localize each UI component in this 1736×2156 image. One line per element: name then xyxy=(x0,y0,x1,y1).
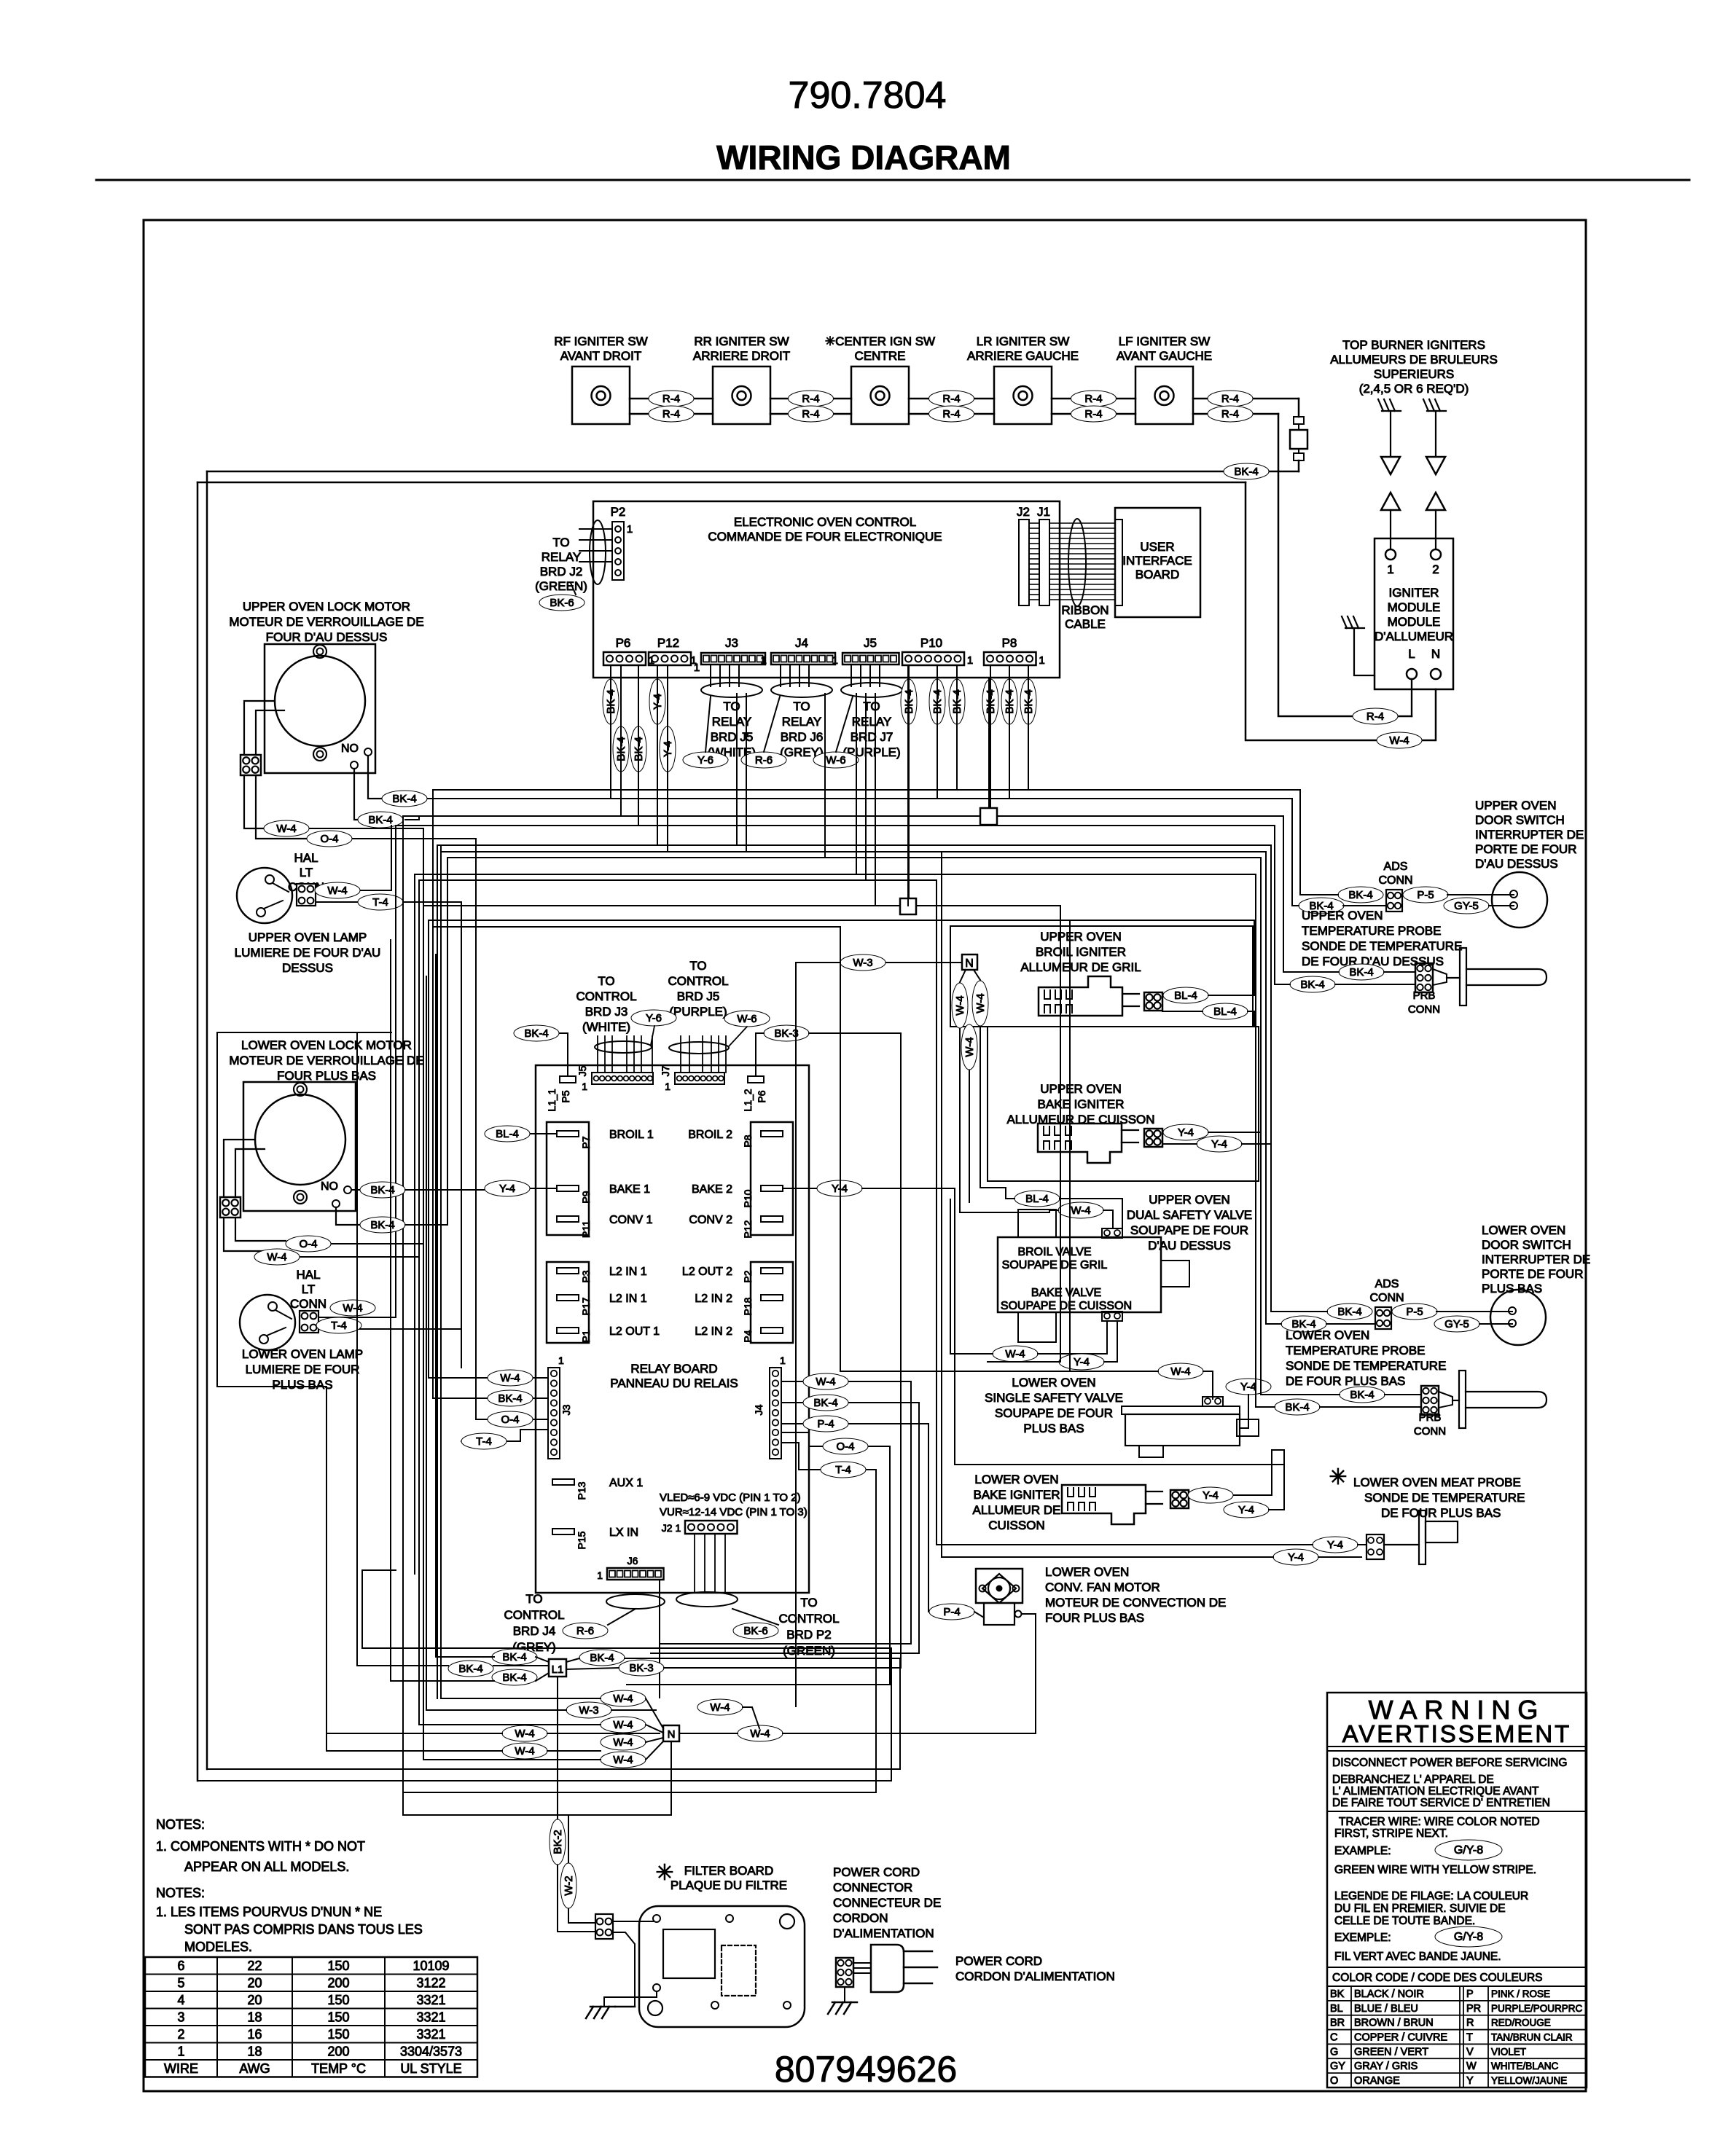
svg-text:TO: TO xyxy=(689,959,706,973)
wire pair with R-4 labels after SW3 xyxy=(909,398,994,400)
label P-5 lower xyxy=(1392,1304,1437,1320)
svg-text:W-3: W-3 xyxy=(579,1704,598,1717)
igniter switch SW3 (✳CENTER IGN SW) xyxy=(851,366,909,424)
ground filter board xyxy=(604,1991,657,2007)
svg-text:O-4: O-4 xyxy=(320,833,338,845)
svg-text:BL-4: BL-4 xyxy=(1025,1193,1049,1205)
igniter switch SW2 (RR IGNITER SW) xyxy=(713,366,770,424)
box around broil igniter xyxy=(950,926,1253,1027)
svg-text:BR: BR xyxy=(1330,2018,1345,2029)
svg-text:Y: Y xyxy=(1466,2075,1474,2087)
wire spark to arrow left xyxy=(1390,411,1391,457)
connector lower lock motor xyxy=(220,1197,241,1218)
svg-text:BROIL 2: BROIL 2 xyxy=(688,1129,732,1141)
svg-text:W-4: W-4 xyxy=(1389,734,1409,747)
label W-3 left of N xyxy=(566,1702,611,1718)
svg-text:BK-6: BK-6 xyxy=(550,597,574,609)
svg-text:W-4: W-4 xyxy=(613,1754,633,1766)
svg-text:W-4: W-4 xyxy=(963,1037,976,1057)
svg-text:LOWER OVEN: LOWER OVEN xyxy=(1482,1223,1565,1237)
svg-text:(GREEN): (GREEN) xyxy=(783,1644,835,1658)
svg-text:J3: J3 xyxy=(560,1404,572,1415)
label BK-4 below P6 pin1 xyxy=(603,679,619,724)
svg-text:J2 1: J2 1 xyxy=(662,1522,681,1534)
junction node sq2 xyxy=(900,898,916,914)
bus BK-4 top xyxy=(207,471,1299,473)
svg-text:4: 4 xyxy=(177,1993,184,2007)
svg-text:D'AU DESSUS: D'AU DESSUS xyxy=(1475,857,1558,871)
svg-text:EXAMPLE:: EXAMPLE: xyxy=(1334,1845,1391,1857)
connector J3 relay vertical xyxy=(548,1368,560,1459)
svg-text:RED/ROUGE: RED/ROUGE xyxy=(1491,2018,1551,2028)
label W-4 lower lamp xyxy=(318,1317,396,1318)
label Y-4 bake igniter 2 xyxy=(1197,1136,1242,1152)
igniter module U2 xyxy=(1375,538,1453,689)
svg-text:BL-4: BL-4 xyxy=(1213,1006,1237,1018)
svg-text:J4: J4 xyxy=(753,1404,765,1415)
label BK-4 below P8 pin3 xyxy=(1020,679,1036,724)
wire pair with R-4 labels after SW2 xyxy=(770,398,851,400)
wires probe upper xyxy=(1283,816,1339,972)
svg-text:PR: PR xyxy=(1466,2003,1481,2015)
wires probe lower xyxy=(1261,858,1340,1395)
example tracer label G/Y-8 xyxy=(1435,1840,1502,1860)
svg-text:J6: J6 xyxy=(627,1555,638,1567)
svg-text:R-4: R-4 xyxy=(662,408,680,420)
label BK-4 upper lock NO xyxy=(368,756,382,799)
connector P12 xyxy=(649,652,691,665)
label BK-4 below P6 pin2 xyxy=(613,726,629,772)
svg-text:LT: LT xyxy=(302,1282,316,1296)
svg-text:R-4: R-4 xyxy=(942,408,960,420)
relay board xyxy=(536,1065,809,1593)
svg-text:1: 1 xyxy=(665,1081,670,1092)
bus vertical mid bundle xyxy=(402,816,404,1815)
svg-text:BK-4: BK-4 xyxy=(1337,1306,1361,1318)
svg-text:DESSUS: DESSUS xyxy=(282,961,333,975)
label W-4 left of N 2 xyxy=(601,1717,646,1733)
filter board FB1 xyxy=(639,1906,805,2027)
svg-text:J3: J3 xyxy=(725,636,738,650)
svg-text:PORTE DE FOUR: PORTE DE FOUR xyxy=(1475,842,1576,856)
svg-text:CABLE: CABLE xyxy=(1065,617,1106,631)
ribbon cable loop xyxy=(1068,519,1086,606)
svg-text:1: 1 xyxy=(691,654,697,667)
svg-text:GREEN / VERT: GREEN / VERT xyxy=(1354,2046,1428,2058)
label T-4 J4 xyxy=(781,1443,876,1470)
bus bottom horizontal 3 xyxy=(403,1792,876,1793)
svg-text:W: W xyxy=(1466,2061,1477,2072)
relay connector group P3 P17 P1 xyxy=(547,1262,589,1343)
svg-text:P2: P2 xyxy=(742,1270,754,1282)
connector P10 xyxy=(902,652,964,665)
svg-text:P5: P5 xyxy=(560,1090,571,1102)
svg-text:UPPER OVEN: UPPER OVEN xyxy=(1040,1082,1121,1096)
svg-text:22: 22 xyxy=(247,1959,262,1973)
svg-text:ARRIERE GAUCHE: ARRIERE GAUCHE xyxy=(967,349,1079,363)
svg-text:BK-4: BK-4 xyxy=(524,1027,548,1040)
PRB connector lower xyxy=(1421,1386,1439,1415)
svg-text:D'ALIMENTATION: D'ALIMENTATION xyxy=(833,1926,934,1940)
svg-text:TEMP °C: TEMP °C xyxy=(311,2061,366,2076)
svg-text:DISCONNECT POWER BEFORE SERVIC: DISCONNECT POWER BEFORE SERVICING xyxy=(1332,1757,1567,1769)
label P-4 J4 xyxy=(781,1423,928,1424)
connector P15 LX IN xyxy=(552,1529,574,1534)
wire pair with R-4 labels after SW1 xyxy=(630,398,713,400)
label BK-4 J4 xyxy=(781,1402,919,1403)
label BK-4 relay L1_1 xyxy=(514,1025,559,1041)
svg-text:(WHITE): (WHITE) xyxy=(582,1020,630,1034)
svg-text:PORTE DE FOUR: PORTE DE FOUR xyxy=(1482,1267,1583,1281)
svg-text:SUPERIEURS: SUPERIEURS xyxy=(1374,367,1455,381)
label BK-3 right of L1 xyxy=(619,1660,664,1676)
svg-text:GY-5: GY-5 xyxy=(1454,900,1479,912)
svg-text:P8: P8 xyxy=(1002,636,1017,650)
svg-text:N: N xyxy=(1431,647,1440,661)
wire module L down to R-4 xyxy=(1411,679,1412,716)
svg-text:L2 OUT 2: L2 OUT 2 xyxy=(682,1266,732,1278)
svg-text:BK-4: BK-4 xyxy=(458,1663,482,1675)
label W-4 J4 xyxy=(781,1381,911,1382)
svg-text:GY-5: GY-5 xyxy=(1444,1318,1469,1330)
label BK-3 relay xyxy=(764,1025,809,1041)
svg-text:T-4: T-4 xyxy=(476,1435,492,1448)
svg-text:BK-6: BK-6 xyxy=(743,1625,767,1637)
label BK-4 probe upper xyxy=(1339,964,1384,980)
svg-text:BAKE IGNITER: BAKE IGNITER xyxy=(1037,1097,1124,1111)
lower door switch S2 xyxy=(1490,1290,1546,1345)
label BL-4 broil igniter xyxy=(1163,987,1208,1003)
svg-text:3304/3573: 3304/3573 xyxy=(400,2044,462,2058)
relay connector group P2 P18 P4 xyxy=(751,1262,793,1343)
label W-4 lower lock xyxy=(254,1249,300,1265)
label BK-4 right of L1 xyxy=(579,1650,625,1666)
svg-text:1. LES ITEMS POURVUS D'NUN *: 1. LES ITEMS POURVUS D'NUN * NE xyxy=(156,1905,382,1919)
svg-text:UPPER OVEN LOCK MOTOR: UPPER OVEN LOCK MOTOR xyxy=(243,600,410,614)
svg-text:GREEN WIRE WITH YELLOW STRIPE.: GREEN WIRE WITH YELLOW STRIPE. xyxy=(1334,1864,1536,1876)
svg-text:P7: P7 xyxy=(580,1136,592,1148)
power cord connector xyxy=(836,1958,853,1987)
svg-text:L1_1: L1_1 xyxy=(546,1089,558,1111)
spark gap igniter module chassis xyxy=(1342,616,1347,628)
N node bottom xyxy=(663,1725,679,1741)
label W-4 igniter module N xyxy=(1377,732,1422,748)
svg-text:CENTRE: CENTRE xyxy=(855,349,906,363)
svg-text:P11: P11 xyxy=(580,1220,592,1238)
svg-text:W-4: W-4 xyxy=(816,1376,835,1388)
svg-text:PURPLE/POURPRC: PURPLE/POURPRC xyxy=(1491,2003,1583,2014)
connector lower bake igniter xyxy=(1170,1490,1189,1508)
label O-4 J3 xyxy=(476,1419,548,1420)
svg-text:P12: P12 xyxy=(657,636,679,650)
svg-text:TO: TO xyxy=(793,699,810,713)
wire W-4 single valve feed vertical xyxy=(840,927,841,1371)
svg-text:SOUPAPE DE CUISSON: SOUPAPE DE CUISSON xyxy=(1001,1300,1132,1312)
svg-text:W-4: W-4 xyxy=(343,1302,362,1314)
label Y-4 lower igniter 2 xyxy=(1224,1502,1269,1518)
svg-text:ALLUMEURS DE BRULEURS: ALLUMEURS DE BRULEURS xyxy=(1330,353,1498,366)
fan motor return wire xyxy=(1015,1611,1022,1618)
label Y-6 xyxy=(683,752,728,768)
wire pair with R-4 labels after SW4 xyxy=(1052,398,1135,400)
svg-text:790.7804: 790.7804 xyxy=(789,74,947,117)
filter board connector xyxy=(595,1914,613,1939)
bus vertical left pair xyxy=(197,482,199,1781)
svg-text:HAL: HAL xyxy=(294,851,318,865)
label BL-4 broil1 xyxy=(506,1133,557,1134)
svg-text:LOWER OVEN: LOWER OVEN xyxy=(1045,1565,1129,1579)
wire igniter lower to module xyxy=(1278,414,1412,716)
svg-text:J4: J4 xyxy=(795,636,808,650)
svg-text:RELAY BOARD: RELAY BOARD xyxy=(630,1362,717,1376)
svg-text:CORDON D'ALIMENTATION: CORDON D'ALIMENTATION xyxy=(955,1969,1115,1983)
wires J3 bundle down xyxy=(710,665,711,686)
svg-text:AVERTISSEMENT: AVERTISSEMENT xyxy=(1342,1720,1572,1747)
svg-text:DE FOUR PLUS BAS: DE FOUR PLUS BAS xyxy=(1286,1374,1405,1388)
svg-text:CONN: CONN xyxy=(290,1297,327,1311)
svg-text:T: T xyxy=(1466,2032,1473,2044)
svg-text:P-4: P-4 xyxy=(943,1606,960,1618)
upper temp probe body xyxy=(1433,969,1447,985)
svg-text:BK-4: BK-4 xyxy=(1300,979,1324,991)
svg-text:W-4: W-4 xyxy=(613,1693,633,1705)
svg-text:MOTEUR DE VERROUILLAGE DE: MOTEUR DE VERROUILLAGE DE xyxy=(229,1054,423,1067)
svg-text:BK-4: BK-4 xyxy=(1348,889,1372,901)
svg-text:✳CENTER IGN SW: ✳CENTER IGN SW xyxy=(825,334,935,348)
svg-text:P2: P2 xyxy=(611,505,626,519)
label W-4 above N xyxy=(601,1690,646,1706)
connector P5 L1_1 xyxy=(560,1076,576,1083)
wire loop around lower lock motor xyxy=(217,1032,391,1387)
svg-text:150: 150 xyxy=(327,1959,349,1973)
connector J3 xyxy=(701,653,765,665)
svg-text:APPEAR ON ALL MODELS.: APPEAR ON ALL MODELS. xyxy=(184,1859,349,1874)
svg-text:PRB: PRB xyxy=(1413,989,1436,1002)
svg-text:CONV. FAN MOTOR: CONV. FAN MOTOR xyxy=(1045,1580,1160,1594)
connector broil igniter xyxy=(1144,992,1162,1011)
svg-text:BLACK / NOIR: BLACK / NOIR xyxy=(1354,1988,1424,2000)
spark gap symbol left burner xyxy=(1378,399,1383,411)
svg-text:BRD J5: BRD J5 xyxy=(677,989,720,1003)
svg-text:L2 IN 1: L2 IN 1 xyxy=(609,1266,647,1278)
connector P6 L1_2 xyxy=(748,1076,764,1083)
svg-text:LOWER OVEN: LOWER OVEN xyxy=(1286,1328,1369,1342)
ADS connector lower xyxy=(1375,1307,1391,1329)
svg-text:LOWER OVEN MEAT PROBE: LOWER OVEN MEAT PROBE xyxy=(1353,1475,1521,1489)
svg-text:3321: 3321 xyxy=(416,1993,445,2007)
svg-text:O: O xyxy=(1330,2075,1338,2087)
svg-text:T-4: T-4 xyxy=(835,1464,851,1476)
svg-text:W-4: W-4 xyxy=(710,1701,730,1714)
svg-text:FOUR PLUS BAS: FOUR PLUS BAS xyxy=(1045,1611,1144,1625)
svg-text:BRD J6: BRD J6 xyxy=(781,730,824,744)
svg-text:Y-4: Y-4 xyxy=(1240,1381,1256,1393)
wires J6 loop xyxy=(606,1594,665,1609)
svg-text:BK-4: BK-4 xyxy=(502,1671,526,1684)
svg-text:P4: P4 xyxy=(742,1330,754,1342)
wires upper lock motor xyxy=(244,701,275,755)
svg-text:ALLUMEUR DE: ALLUMEUR DE xyxy=(973,1503,1061,1517)
svg-text:W-4: W-4 xyxy=(1170,1365,1190,1378)
svg-text:1: 1 xyxy=(967,654,973,667)
wires around L1 xyxy=(357,1665,448,1666)
svg-text:G: G xyxy=(1330,2046,1338,2058)
svg-text:DUAL SAFETY VALVE: DUAL SAFETY VALVE xyxy=(1127,1208,1252,1222)
svg-text:FOUR D'AU DESSUS: FOUR D'AU DESSUS xyxy=(266,630,388,644)
svg-text:AWG: AWG xyxy=(239,2061,270,2076)
svg-text:1. COMPONENTS WITH * DO NOT: 1. COMPONENTS WITH * DO NOT xyxy=(156,1839,365,1854)
svg-text:R: R xyxy=(1466,2018,1474,2029)
relay connector group P8 P10 P12 xyxy=(751,1122,793,1235)
svg-text:W-4: W-4 xyxy=(515,1728,534,1740)
label Y-4 meat probe 2 xyxy=(1273,1549,1318,1565)
svg-text:1: 1 xyxy=(627,523,633,536)
svg-text:SOUPAPE DE GRIL: SOUPAPE DE GRIL xyxy=(1002,1259,1108,1271)
fuse F1 xyxy=(1298,399,1300,417)
label W-2 xyxy=(560,1863,576,1908)
wire Y-4 single valve feed xyxy=(1060,906,1061,1362)
svg-text:RELAY: RELAY xyxy=(782,715,822,729)
svg-text:Y-4: Y-4 xyxy=(1203,1489,1219,1502)
svg-text:COMMANDE DE FOUR ELECTRONIQUE: COMMANDE DE FOUR ELECTRONIQUE xyxy=(708,530,942,544)
svg-text:P12: P12 xyxy=(742,1220,754,1238)
svg-text:TO: TO xyxy=(723,699,740,713)
label W-4 J3 xyxy=(429,1377,548,1379)
svg-text:Y-4: Y-4 xyxy=(1288,1551,1304,1564)
svg-text:Y-4: Y-4 xyxy=(1211,1138,1227,1150)
svg-text:L: L xyxy=(1408,647,1415,661)
svg-text:TOP BURNER IGNITERS: TOP BURNER IGNITERS xyxy=(1342,338,1485,352)
svg-text:ORANGE: ORANGE xyxy=(1354,2075,1400,2087)
labels W-4 below N node xyxy=(952,983,968,1028)
svg-text:BRD J2: BRD J2 xyxy=(540,565,583,579)
exemple tracer label G/Y-8 xyxy=(1435,1926,1502,1947)
svg-text:MOTEUR DE VERROUILLAGE DE: MOTEUR DE VERROUILLAGE DE xyxy=(229,615,423,629)
svg-text:W-4: W-4 xyxy=(750,1728,770,1740)
svg-text:BOARD: BOARD xyxy=(1135,568,1179,581)
svg-text:P13: P13 xyxy=(576,1481,587,1500)
svg-text:RF IGNITER SW: RF IGNITER SW xyxy=(554,334,647,348)
svg-text:CONTROL: CONTROL xyxy=(668,974,728,988)
svg-text:TO: TO xyxy=(598,974,614,988)
lower temp probe body xyxy=(1439,1392,1452,1408)
label T-4 lower lamp xyxy=(318,1328,461,1330)
label BK-4 probe lower xyxy=(1340,1387,1385,1403)
connector lower lamp xyxy=(300,1311,318,1333)
svg-text:SONDE DE TEMPERATURE: SONDE DE TEMPERATURE xyxy=(1302,939,1462,953)
svg-text:P17: P17 xyxy=(580,1297,592,1315)
svg-text:CORDON: CORDON xyxy=(833,1911,888,1925)
svg-text:PRB: PRB xyxy=(1419,1411,1442,1424)
svg-text:R-6: R-6 xyxy=(755,754,773,767)
svg-text:W-4: W-4 xyxy=(613,1736,633,1749)
svg-text:L' ALIMENTATION ELECTRIQUE A: L' ALIMENTATION ELECTRIQUE AVANT xyxy=(1332,1785,1539,1798)
svg-text:J5: J5 xyxy=(576,1065,588,1076)
label T-4 upper lamp xyxy=(316,901,461,903)
label BK-4 left of L1 xyxy=(448,1661,493,1677)
label Y-4 below P12 pin1 xyxy=(649,679,665,724)
svg-text:10109: 10109 xyxy=(413,1959,449,1973)
connector upper lock motor xyxy=(241,755,261,775)
svg-text:P: P xyxy=(1466,1988,1474,2000)
relay connector group P7 P9 P11 xyxy=(547,1122,589,1235)
svg-text:W-4: W-4 xyxy=(954,995,966,1015)
svg-text:DE FAIRE TOUT SERVICE D' E: DE FAIRE TOUT SERVICE D' ENTRETIEN xyxy=(1332,1797,1550,1809)
svg-text:SONT PAS COMPRIS DANS TOUS LES: SONT PAS COMPRIS DANS TOUS LES xyxy=(184,1922,423,1937)
label BK-4 probe upper2 xyxy=(1290,976,1335,992)
svg-text:W-2: W-2 xyxy=(563,1875,575,1895)
svg-text:BK-4: BK-4 xyxy=(1234,466,1258,478)
svg-text:O-4: O-4 xyxy=(501,1414,519,1426)
svg-text:UPPER OVEN: UPPER OVEN xyxy=(1475,799,1556,812)
svg-text:CONN: CONN xyxy=(1414,1425,1446,1438)
svg-text:LEGENDE DE FILAGE: LA COULEU: LEGENDE DE FILAGE: LA COULEUR xyxy=(1334,1890,1528,1902)
label W-4 right of N xyxy=(738,1725,783,1741)
svg-text:PLUS BAS: PLUS BAS xyxy=(272,1378,332,1392)
label W-3 mid xyxy=(796,962,962,963)
svg-text:W-4: W-4 xyxy=(267,1251,286,1263)
svg-text:ADS: ADS xyxy=(1384,861,1408,873)
svg-text:MODULE: MODULE xyxy=(1388,600,1441,614)
svg-text:BAKE IGNITER: BAKE IGNITER xyxy=(973,1488,1060,1502)
outer border xyxy=(144,220,1586,2091)
wires P10 down to bus xyxy=(908,665,910,906)
svg-text:L1: L1 xyxy=(552,1663,564,1676)
label TO RELAY BRD J5 (WHITE) xyxy=(701,683,762,697)
svg-text:1: 1 xyxy=(832,654,838,667)
svg-text:GY: GY xyxy=(1330,2061,1345,2072)
label BK-4 lower lock NC xyxy=(336,1207,360,1225)
svg-text:P6: P6 xyxy=(616,636,631,650)
svg-text:BRD J4: BRD J4 xyxy=(513,1624,556,1638)
svg-text:NOTES:: NOTES: xyxy=(156,1817,205,1832)
svg-text:LUMIERE DE FOUR D'AU: LUMIERE DE FOUR D'AU xyxy=(235,946,381,960)
svg-text:150: 150 xyxy=(327,2027,349,2042)
svg-text:3321: 3321 xyxy=(416,2027,445,2042)
power cord plug xyxy=(871,1945,904,1992)
wire W-4 igniter module N xyxy=(1246,482,1436,740)
svg-text:FOUR PLUS BAS: FOUR PLUS BAS xyxy=(277,1069,376,1083)
svg-text:1: 1 xyxy=(780,1355,786,1366)
svg-text:UPPER OVEN: UPPER OVEN xyxy=(1149,1193,1229,1207)
bus W top xyxy=(198,482,1246,484)
svg-text:P-5: P-5 xyxy=(1417,889,1434,901)
svg-text:T-4: T-4 xyxy=(372,896,388,909)
svg-text:LX IN: LX IN xyxy=(609,1526,638,1539)
connector J5 xyxy=(842,653,899,665)
label Y-4 meat probe xyxy=(1313,1537,1358,1553)
color code table xyxy=(1327,2000,1587,2002)
connector P2 xyxy=(612,522,624,580)
svg-text:P-5: P-5 xyxy=(1406,1306,1423,1318)
dual safety valve V1 xyxy=(998,1237,1161,1312)
svg-text:TAN/BRUN CLAIR: TAN/BRUN CLAIR xyxy=(1491,2032,1573,2043)
svg-text:Y-6: Y-6 xyxy=(697,754,713,767)
warning box xyxy=(1327,1693,1587,2088)
single safety valve V2 xyxy=(1122,1406,1240,1414)
label GY-5 upper xyxy=(1444,898,1489,914)
svg-text:P18: P18 xyxy=(742,1297,754,1315)
label BK-4 ADS lower2 xyxy=(1281,1316,1326,1332)
label Y-4 bake2 xyxy=(783,1188,862,1189)
svg-text:R-4: R-4 xyxy=(1221,393,1239,405)
svg-text:Y-4: Y-4 xyxy=(1074,1356,1090,1368)
svg-text:BL-4: BL-4 xyxy=(496,1128,519,1140)
wire vertical feeds to N xyxy=(440,845,442,1698)
svg-text:R-4: R-4 xyxy=(1084,408,1102,420)
up arrow to igniter module pin1 xyxy=(1381,493,1400,510)
svg-text:PLAQUE DU FILTRE: PLAQUE DU FILTRE xyxy=(670,1878,787,1892)
